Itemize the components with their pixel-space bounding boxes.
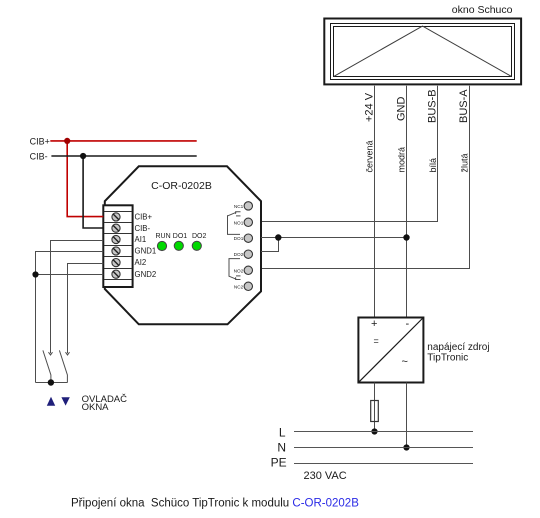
relay contact symbol K2 [229,259,241,280]
svg-text:DO1: DO1 [173,233,188,240]
relay contact symbol K1 [228,212,241,235]
wire GND2 left [36,274,104,276]
triangle down [61,397,69,405]
wire NO1 to BUS-B (drawn above), wire DO1 output [261,237,407,239]
wire CIB+ drop to terminal [67,141,103,217]
triangle up [47,397,55,406]
junction dot CIB- [80,153,86,159]
fuse F1 [371,401,379,422]
svg-text:CIB+: CIB+ [135,213,153,222]
terminal labels [135,213,157,279]
relay pin DO1 [244,234,252,242]
svg-text:+24 V: +24 V [364,92,376,122]
svg-text:OKNA: OKNA [82,402,110,413]
LED RUN [157,241,166,250]
svg-text:NC1: NC1 [234,204,244,209]
svg-text:C-OR-0202B: C-OR-0202B [151,180,212,192]
screw terminal CIB+ [112,213,120,221]
screw terminal AI2 [112,259,120,267]
wire DO1-DO2 jog [261,238,279,252]
junction dot L [371,428,377,434]
module U1 octagon C-OR-0202B [105,166,261,324]
junction dot N [403,444,409,450]
svg-text:Připojení okna Schüco TipTron: Připojení okna Schüco TipTronic k modulu… [71,498,359,510]
line N [294,447,473,449]
power supply diagonal [358,318,423,383]
wire CIB- black bus [51,155,196,157]
svg-text:+: + [371,318,377,330]
relay pin NO2 [244,266,252,274]
switch S1 contact [43,350,53,382]
svg-text:bílá: bílá [428,158,438,173]
svg-text:CIB-: CIB- [30,151,48,161]
relay pin NC1 [244,202,252,210]
svg-text:=: = [374,336,379,346]
svg-text:DO1: DO1 [234,236,244,241]
svg-text:NO1: NO1 [234,220,244,225]
svg-text:červená: červená [365,140,375,172]
screw terminal GND2 [112,270,120,278]
power supply box [358,318,423,383]
svg-text:230 VAC: 230 VAC [304,470,347,482]
svg-text:AI1: AI1 [135,235,147,244]
wire AI2 to switch S2 [68,264,104,354]
junction dot DO1 [275,234,281,240]
wire BUS-B vertical + horizontal to NO1 [261,86,438,222]
svg-text:DO2: DO2 [192,233,207,240]
window okno Schuco outer frame [324,19,521,85]
svg-text:L: L [279,426,286,440]
LED labels [156,233,207,240]
wire supply to N [406,383,408,448]
svg-text:AI2: AI2 [135,258,147,267]
wire supply to L with fuse [374,383,376,432]
relay pin NO1 [244,218,252,226]
wire AI1 to switch S1 [51,241,104,354]
line PE [294,463,473,465]
svg-text:PE: PE [271,456,287,470]
svg-text:BUS-B: BUS-B [427,89,439,123]
LED DO1 [174,241,183,250]
svg-text:CIB-: CIB- [135,224,151,233]
junction dot switch bottom [48,379,54,385]
relay pin DO2 [244,250,252,258]
wire GND1 down [36,252,104,383]
junction dot GND2 [32,271,38,277]
line L [294,431,473,433]
wire BUS-A vertical + horizontal to NO2 [261,86,470,269]
svg-text:BUS-A: BUS-A [458,89,470,123]
svg-text:N: N [277,441,286,455]
svg-text:CIB+: CIB+ [30,136,50,146]
svg-text:NC2: NC2 [234,284,244,289]
wire switch common bottom [36,382,68,384]
svg-text:modrá: modrá [397,147,407,173]
switch S2 contact [59,350,69,382]
wire CIB- drop to terminal [83,156,103,228]
svg-text:GND1: GND1 [135,247,157,256]
wire +24 V vertical [374,86,376,318]
svg-text:žlutá: žlutá [460,153,470,172]
wire CIB+ red bus [50,140,196,142]
svg-text:NO2: NO2 [234,268,244,273]
junction dot DO1-GND [403,234,409,240]
screw terminal GND1 [112,247,120,255]
svg-text:GND: GND [396,97,408,122]
relay pin NC2 [244,282,252,290]
relay pin labels [234,204,244,289]
window tilt diagonals [334,26,512,76]
screw terminal AI1 [112,235,120,243]
svg-text:TipTronic: TipTronic [427,353,468,364]
LED DO2 [192,241,201,250]
svg-text:-: - [406,318,410,330]
svg-text:napájecí zdroj: napájecí zdroj [427,342,489,353]
svg-text:GND2: GND2 [135,270,157,279]
terminal block X1 [103,205,132,287]
svg-text:RUN: RUN [156,233,171,240]
svg-text:okno Schuco: okno Schuco [452,4,513,16]
svg-text:~: ~ [402,356,408,368]
junction dot CIB+ [64,138,70,144]
screw terminal CIB- [112,224,120,232]
wire GND vertical [406,86,408,318]
svg-text:DO2: DO2 [234,252,244,257]
